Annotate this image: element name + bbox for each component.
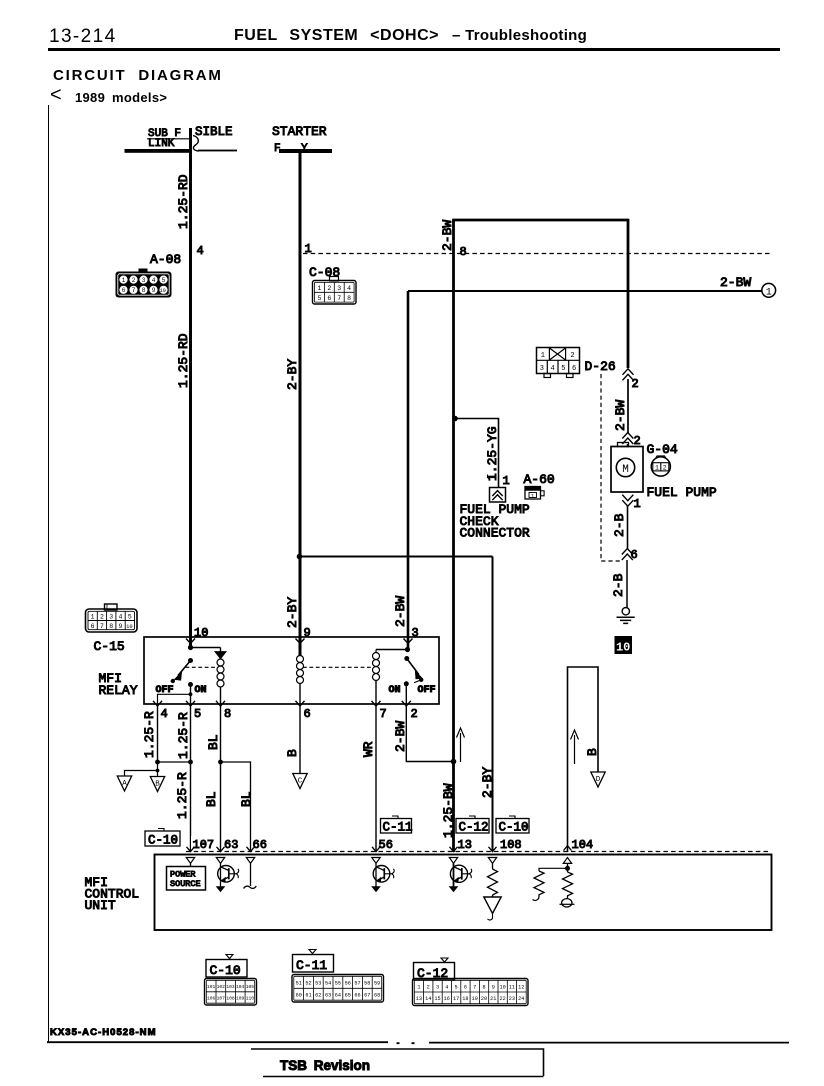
wire label 2-BY upper: [285, 359, 300, 390]
connector tag C-12 at pin 13: [456, 816, 489, 835]
svg-text:8: 8: [460, 245, 467, 259]
svg-text:9: 9: [304, 626, 311, 640]
pin 2 label: [411, 707, 418, 721]
wire label WR: [361, 741, 376, 757]
svg-text:A: A: [122, 780, 127, 788]
svg-text:21: 21: [490, 996, 496, 1002]
transistor at pin 13: [449, 863, 471, 891]
MFI control unit label: [85, 875, 140, 913]
connector separation D-26 pin 2: [623, 369, 634, 381]
relay right armature pivot node: [404, 656, 409, 661]
wire exit arrow at pin 104: [564, 846, 572, 851]
pin 108 label: [500, 838, 522, 852]
wire label 2-B lower: [611, 573, 626, 597]
wire tie to pin 4: [158, 694, 191, 705]
pin 5 label: [194, 707, 201, 721]
svg-text:10: 10: [160, 288, 166, 294]
node pins 4-5 tie: [189, 692, 193, 696]
svg-text:1: 1: [503, 474, 510, 488]
pin 4 of connector A-08: [197, 244, 204, 258]
svg-text:7: 7: [337, 295, 341, 302]
svg-text:7: 7: [100, 623, 104, 630]
svg-text:109: 109: [236, 996, 245, 1002]
svg-text:D-26: D-26: [585, 359, 616, 374]
wire label BL left: [204, 791, 219, 807]
pin 2 label at D-26: [632, 377, 639, 391]
svg-text:106: 106: [207, 996, 216, 1002]
relay right armature arm: [407, 659, 423, 679]
ground triangle C: [293, 774, 307, 789]
svg-text:5: 5: [317, 295, 321, 302]
svg-text:8: 8: [224, 707, 231, 721]
svg-text:C-10: C-10: [499, 821, 529, 835]
section title CIRCUIT DIAGRAM: [53, 67, 223, 84]
svg-text:B: B: [585, 748, 600, 756]
diode in relay: [215, 648, 226, 659]
pin 6 label: [304, 707, 311, 721]
wire label 2-B upper: [612, 513, 627, 537]
svg-text:2-BW: 2-BW: [440, 220, 455, 251]
svg-text:54: 54: [325, 981, 331, 987]
pin 104 label: [572, 838, 594, 852]
pin 3 of relay: [412, 626, 419, 640]
connector C-15 icon: [86, 604, 138, 632]
svg-text:2-BW: 2-BW: [720, 275, 751, 290]
wire 2-BW trunk vertical: [452, 220, 455, 852]
wire 2-B to body ground: [626, 560, 628, 608]
node ground branch: [156, 769, 160, 773]
svg-text:4: 4: [347, 285, 351, 292]
svg-text:C-10: C-10: [148, 834, 178, 848]
connector A-08 label: [150, 252, 181, 267]
pin 6 label: [631, 548, 638, 562]
svg-text:1.25-R: 1.25-R: [142, 711, 157, 758]
relay coil 2: [297, 643, 304, 705]
wire pin3 junction to coil 3: [376, 649, 408, 651]
svg-text:KX35-AC-H0528-NM: KX35-AC-H0528-NM: [50, 1027, 157, 1038]
svg-text:BL: BL: [206, 734, 221, 750]
node relay pin3 junction: [405, 647, 410, 652]
svg-text:4: 4: [152, 277, 156, 284]
svg-text:1: 1: [417, 985, 420, 991]
wire 2-BY branch vertical to pin 108: [492, 557, 494, 853]
svg-text:108: 108: [500, 838, 522, 852]
left page border: [48, 105, 50, 1042]
svg-text:G-04: G-04: [647, 442, 678, 457]
svg-text:CONNECTOR: CONNECTOR: [460, 526, 530, 541]
svg-text:4: 4: [161, 707, 168, 721]
relay exit arrows pins 4 5 8 6 7 2: [153, 701, 411, 706]
ground triangle A: [117, 776, 131, 791]
svg-text:104: 104: [236, 984, 245, 990]
svg-text:2-BW: 2-BW: [393, 596, 408, 627]
wire B loop from pin 104: [568, 667, 599, 852]
wire relay pin10 to diode: [191, 647, 221, 649]
connector C-11 table: [292, 950, 384, 1003]
svg-text:3: 3: [109, 614, 113, 621]
svg-text:1.25-R: 1.25-R: [175, 772, 190, 819]
pin 1 of connector C-08: [305, 242, 312, 256]
svg-text:A-60: A-60: [524, 472, 555, 487]
wire label 2-BW page link: [720, 275, 751, 290]
fuel pump label: [647, 485, 717, 500]
svg-text:108: 108: [226, 996, 235, 1002]
svg-text:63: 63: [224, 838, 238, 852]
MFI relay label: [99, 671, 138, 698]
pin 8 label: [224, 707, 231, 721]
body ground symbol: [617, 608, 635, 624]
svg-text:OFF: OFF: [418, 685, 436, 696]
svg-text:4: 4: [119, 614, 123, 621]
connector C-08 label: [309, 265, 340, 280]
svg-text:2: 2: [570, 352, 574, 360]
svg-text:8: 8: [142, 287, 146, 294]
wire label 1.25-R pin4: [142, 711, 157, 758]
node tie pin4: [155, 760, 160, 765]
svg-text:8: 8: [347, 295, 351, 302]
svg-text:7: 7: [132, 287, 136, 294]
connector G-04 label: [647, 442, 678, 457]
node tie pin5: [188, 760, 193, 765]
wire BL branch to pin 66: [221, 762, 251, 852]
pin 104 internal node: [565, 863, 570, 870]
subtitle 1989 models: [50, 84, 62, 107]
pin 8 of connector C-08: [460, 245, 467, 259]
node trunk to relay pin2 jumper: [451, 759, 457, 765]
wire 2-BW from relay pin 2 to trunk: [406, 705, 452, 762]
header subtitle Troubleshooting: [452, 27, 587, 44]
relay mechanical dashed link left: [186, 666, 218, 668]
connector C-08 icon: [313, 277, 357, 305]
header rule: [48, 48, 780, 51]
sensor ground symbol below resistor: [560, 899, 575, 907]
svg-text:RELAY: RELAY: [99, 683, 138, 698]
svg-text:6: 6: [464, 985, 467, 991]
svg-text:4: 4: [445, 985, 448, 991]
svg-text:64: 64: [335, 993, 341, 999]
relay left OFF contact: [171, 679, 175, 683]
wire BL from pin 8: [220, 705, 222, 852]
svg-text:UNIT: UNIT: [85, 898, 116, 913]
svg-text:3: 3: [436, 985, 439, 991]
svg-text:56: 56: [379, 838, 393, 852]
fuel pump check connector symbol: [490, 488, 506, 503]
svg-text:53: 53: [315, 981, 321, 987]
wire label 1.25-RD upper: [176, 174, 191, 229]
pin 2 label at pump connector: [634, 434, 641, 448]
svg-text:1.25-RD: 1.25-RD: [176, 333, 191, 388]
pin 56 label: [379, 838, 393, 852]
relay entry arrow pin 9: [296, 639, 305, 644]
svg-text:110: 110: [246, 996, 255, 1002]
svg-text:B: B: [155, 780, 160, 788]
wire 1.25-R from pin 4: [157, 705, 159, 762]
connector D-26 label: [585, 359, 616, 374]
wire label 2-BY at pin 108: [480, 767, 495, 798]
starter label: [272, 124, 327, 155]
wire B from pin 6 to ground C: [299, 705, 301, 774]
svg-text:POWER: POWER: [170, 870, 196, 880]
connector separation pump pin 1: [622, 495, 633, 507]
svg-text:65: 65: [345, 993, 351, 999]
svg-text:10: 10: [616, 641, 630, 655]
svg-text:19: 19: [472, 996, 478, 1002]
sub fusible link bar left: [125, 149, 190, 153]
svg-text:1.25-R: 1.25-R: [176, 712, 191, 759]
svg-text:2: 2: [100, 614, 104, 621]
relay entry arrow pin 10: [186, 639, 195, 644]
wire 2-BW D-26 to pump connector: [627, 379, 629, 433]
svg-text:9: 9: [152, 287, 156, 294]
svg-text:59: 59: [374, 981, 380, 987]
svg-text:1.25-RD: 1.25-RD: [176, 174, 191, 229]
svg-text:7: 7: [380, 707, 387, 721]
resistor at pin 108: [484, 863, 501, 920]
svg-text:66: 66: [253, 838, 267, 852]
page number 13-214: [49, 26, 117, 48]
wire label 1.25-R pin5: [176, 712, 191, 759]
wire label 1.25-BW lower trunk: [441, 783, 456, 838]
svg-text:WR: WR: [361, 741, 376, 757]
svg-text:D: D: [596, 776, 601, 784]
svg-text:13: 13: [416, 996, 422, 1002]
tick mark near check connector: [488, 475, 497, 478]
wire to ground triangles A B: [125, 762, 158, 777]
resistor left of pin 104: [533, 871, 545, 900]
svg-text:2-BY: 2-BY: [285, 597, 300, 628]
svg-text:68: 68: [374, 993, 380, 999]
pin number labels white backs: [191, 836, 596, 849]
ground triangle B: [150, 777, 164, 792]
svg-text:B: B: [285, 749, 300, 757]
svg-text:66: 66: [354, 993, 360, 999]
svg-text:2-BY: 2-BY: [480, 767, 495, 798]
svg-text:6: 6: [572, 365, 576, 373]
svg-text:2-B: 2-B: [612, 513, 627, 537]
svg-text:20: 20: [481, 996, 487, 1002]
svg-text:12: 12: [518, 985, 524, 991]
svg-text:1: 1: [541, 352, 545, 360]
wire label 2-BW at pump: [613, 400, 628, 431]
svg-text:1: 1: [317, 285, 321, 292]
svg-text:107: 107: [217, 996, 226, 1002]
svg-text:4: 4: [197, 244, 204, 258]
svg-text:2: 2: [132, 277, 136, 284]
wire right vertical 2-BW to D-26: [627, 219, 630, 368]
svg-text:52: 52: [305, 981, 311, 987]
footer rule: [47, 1042, 789, 1043]
relay mechanical dashed link right: [303, 666, 372, 668]
node 2-BY branch junction: [297, 554, 303, 560]
svg-text:3: 3: [142, 277, 146, 284]
svg-text:18: 18: [462, 996, 468, 1002]
transistor at pin 56: [372, 863, 394, 891]
svg-text:LINK: LINK: [148, 138, 175, 150]
svg-text:10: 10: [194, 626, 208, 640]
svg-text:15: 15: [434, 996, 440, 1002]
svg-text:C-11: C-11: [383, 821, 413, 835]
connector boundary dashed line at control unit: [186, 851, 770, 853]
svg-text:2-BW: 2-BW: [393, 721, 408, 752]
svg-text:2: 2: [663, 465, 667, 472]
svg-text:C-11: C-11: [296, 958, 327, 973]
connector A-08 icon: [116, 269, 172, 298]
wire 2-BY vertical from starter to relay pin 9: [299, 153, 302, 656]
svg-text:16: 16: [444, 996, 450, 1002]
svg-text:62: 62: [315, 993, 321, 999]
node BL branch: [218, 760, 223, 765]
svg-text:C-15: C-15: [94, 639, 125, 654]
svg-text:SOURCE: SOURCE: [170, 879, 201, 889]
connector C-10 table: [205, 955, 257, 1006]
svg-text:60: 60: [296, 993, 302, 999]
svg-text:13: 13: [458, 838, 472, 852]
svg-text:1: 1: [634, 497, 641, 511]
wire ON contact to pin 5: [190, 685, 192, 706]
svg-text:1: 1: [531, 492, 535, 499]
wire label 2-BW on relay pin 3 riser: [393, 596, 408, 627]
svg-text:1: 1: [655, 465, 659, 472]
svg-text:STARTER: STARTER: [272, 124, 327, 139]
wire 2-B pump to connector pin 6: [627, 506, 629, 549]
connector tag C-10 at pin 107: [145, 829, 180, 848]
svg-text:3: 3: [337, 285, 341, 292]
svg-text:17: 17: [453, 996, 459, 1002]
connector C-12 table: [413, 958, 529, 1006]
svg-text:1: 1: [122, 277, 126, 284]
connector A-60 icon: [525, 487, 544, 500]
svg-text:BL: BL: [239, 791, 254, 807]
svg-text:3: 3: [412, 626, 419, 640]
svg-text:56: 56: [345, 981, 351, 987]
svg-text:57: 57: [354, 981, 360, 987]
svg-text:A-08: A-08: [150, 252, 181, 267]
svg-text:102: 102: [217, 984, 226, 990]
pin 63 label: [224, 838, 238, 852]
pin 4 label: [161, 707, 168, 721]
wire entry arrows at control unit boundary: [187, 847, 497, 852]
svg-text:23: 23: [509, 996, 515, 1002]
svg-text:8: 8: [482, 985, 485, 991]
svg-text:C: C: [298, 777, 303, 785]
svg-text:3: 3: [540, 365, 544, 373]
svg-text:58: 58: [364, 981, 370, 987]
fuel pump check connector label: [460, 502, 530, 541]
sub fusible link label: [147, 125, 233, 150]
relay OFF label left: [156, 685, 174, 696]
svg-text:101: 101: [207, 984, 216, 990]
svg-text:1: 1: [766, 288, 772, 299]
pin 107 label: [193, 838, 215, 852]
footer document code: [50, 1027, 157, 1038]
svg-text:TSB Revision: TSB Revision: [280, 1058, 370, 1073]
off-page connector circled 1: [762, 283, 776, 298]
svg-text:C-12: C-12: [459, 821, 489, 835]
pin 13 label: [458, 838, 472, 852]
svg-text:5: 5: [194, 707, 201, 721]
relay right OFF contact: [414, 678, 423, 683]
svg-text:55: 55: [335, 981, 341, 987]
svg-text:103: 103: [226, 984, 235, 990]
connector separation pump pin 2: [622, 433, 633, 445]
svg-text:6: 6: [304, 707, 311, 721]
svg-text:2: 2: [427, 985, 430, 991]
svg-text:1.25-YG: 1.25-YG: [485, 426, 500, 481]
wire branch to fuel pump check connector: [454, 419, 499, 488]
wire label BL pin8: [206, 734, 221, 750]
svg-text:6: 6: [631, 548, 638, 562]
svg-text:9: 9: [492, 985, 495, 991]
svg-text:67: 67: [364, 993, 370, 999]
wire to left resistor: [539, 868, 568, 871]
relay left armature arm: [174, 661, 190, 681]
relay entry arrow pin 3: [404, 639, 413, 644]
wire WR from pin 7 to pin 56: [375, 705, 377, 852]
relay right ON contact: [404, 681, 409, 686]
squiggle terminator at pin 66: [244, 863, 257, 888]
connector tag C-11 at pin 56: [381, 816, 413, 835]
connector A-60 label: [524, 472, 555, 487]
svg-text:107: 107: [193, 838, 215, 852]
fuel pump motor M: [611, 443, 643, 493]
svg-text:2: 2: [327, 285, 331, 292]
pin 1 of check connector: [503, 474, 510, 488]
starter bar: [279, 149, 332, 153]
node relay pin10 junction: [188, 645, 193, 650]
svg-text:ON: ON: [389, 685, 401, 696]
svg-text:6: 6: [91, 623, 95, 630]
svg-text:104: 104: [572, 838, 594, 852]
sub fusible link bar right: [198, 150, 237, 152]
node trunk to check connector branch: [452, 416, 458, 422]
svg-text:4: 4: [550, 365, 554, 373]
connector boundary dashed line C-08: [303, 253, 770, 255]
ground triangle D: [591, 772, 605, 787]
svg-text:C-08: C-08: [309, 265, 340, 280]
relay coil 3: [373, 650, 380, 706]
svg-text:2-BY: 2-BY: [285, 359, 300, 390]
wire 1.25-R from pin 5 to pin 107: [190, 705, 192, 852]
pin 10 label: [194, 626, 208, 640]
connector G-04 icon: [651, 456, 670, 476]
svg-text:BL: BL: [204, 791, 219, 807]
relay ON label left: [195, 685, 207, 696]
pin 66 label: [253, 838, 267, 852]
transistor at pin 63: [216, 863, 238, 891]
current arrow on B loop: [571, 730, 579, 764]
svg-text:6: 6: [122, 287, 126, 294]
svg-text:10: 10: [499, 985, 505, 991]
svg-text:ON: ON: [195, 685, 207, 696]
svg-text:2-B: 2-B: [611, 573, 626, 597]
svg-text:2-BW: 2-BW: [613, 400, 628, 431]
svg-text:61: 61: [305, 993, 311, 999]
relay left armature pivot node: [188, 658, 193, 663]
svg-text:2: 2: [632, 377, 639, 391]
svg-text:1.25-BW: 1.25-BW: [441, 783, 456, 838]
wire label 1.25-RD lower: [176, 333, 191, 388]
svg-text:51: 51: [296, 981, 302, 987]
svg-text:FUEL PUMP: FUEL PUMP: [647, 485, 717, 500]
pin 1 label below pump: [634, 497, 641, 511]
svg-text:5: 5: [162, 277, 166, 284]
wire label 2-BW pin2: [393, 721, 408, 752]
svg-text:2: 2: [411, 707, 418, 721]
pin 7 label: [380, 707, 387, 721]
svg-text:24: 24: [518, 996, 524, 1002]
svg-text:105: 105: [246, 984, 255, 990]
MFI control unit box: [155, 855, 772, 931]
